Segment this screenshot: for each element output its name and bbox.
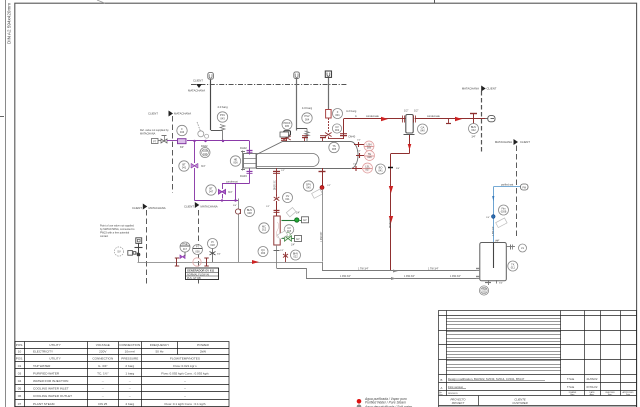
svg-text:MATACHANA: MATACHANA bbox=[174, 112, 191, 116]
steam outlet DA06 bbox=[340, 134, 356, 139]
svg-text:048: 048 bbox=[247, 211, 252, 215]
gauge PSE-017 bbox=[180, 242, 190, 252]
svg-text:CLIENT: CLIENT bbox=[193, 79, 203, 83]
svg-text:Appr.: Appr. bbox=[590, 393, 595, 396]
svg-text:CONNECTION: CONNECTION bbox=[92, 357, 113, 361]
gate valve 2 bbox=[204, 258, 208, 267]
boundary client feedwater bbox=[148, 111, 191, 194]
boundary client steam bbox=[462, 86, 497, 154]
svg-text:10m+el: 10m+el bbox=[125, 350, 136, 354]
svg-text:012: 012 bbox=[262, 228, 267, 232]
svg-text:3/4": 3/4" bbox=[396, 168, 400, 170]
level switch LSL-007 bbox=[352, 163, 373, 173]
tank outlet TSW-032 bbox=[479, 240, 503, 295]
svg-text:SV: SV bbox=[117, 250, 121, 254]
svg-text:1/2": 1/2" bbox=[357, 140, 361, 142]
svg-text:3/4": 3/4" bbox=[499, 283, 503, 285]
regulator PRCK-005 bbox=[282, 120, 292, 142]
storage tank TK bbox=[480, 243, 507, 281]
svg-text:T.Sda: T.Sda bbox=[567, 377, 575, 381]
svg-text:1 DW 3/4": 1 DW 3/4" bbox=[404, 275, 415, 278]
svg-text:FREQUENCY: FREQUENCY bbox=[150, 343, 169, 347]
purified water drop bbox=[486, 187, 509, 243]
svg-text:EV: EV bbox=[296, 238, 300, 241]
svg-text:CLIENT: CLIENT bbox=[520, 140, 530, 144]
svg-text:PURIFIED WATER: PURIFIED WATER bbox=[33, 371, 60, 375]
svg-text:--: -- bbox=[129, 387, 131, 391]
svg-text:ELECTRICITY: ELECTRICITY bbox=[33, 350, 53, 354]
svg-text:B: B bbox=[441, 378, 443, 382]
svg-text:03: 03 bbox=[18, 371, 22, 375]
boundary client drain bbox=[184, 202, 218, 285]
svg-text:DN40: DN40 bbox=[349, 135, 356, 139]
temp element TE-008 bbox=[356, 151, 375, 161]
svg-text:1/2": 1/2" bbox=[404, 110, 408, 113]
revision B bbox=[441, 377, 598, 382]
svg-text:Flow: 0.1 kg/h Cons : 0.1 kg/: Flow: 0.1 kg/h Cons : 0.1 kg/h bbox=[165, 402, 206, 406]
svg-text:MATACHANA: MATACHANA bbox=[201, 205, 218, 209]
svg-text:--: -- bbox=[184, 379, 186, 383]
svg-text:CV: CV bbox=[286, 194, 290, 198]
svg-text:Sign.: Sign. bbox=[570, 394, 575, 396]
svg-text:1 PW 1/4": 1 PW 1/4" bbox=[493, 226, 495, 236]
tapwater POU valve bbox=[135, 238, 143, 262]
vent stack 1 bbox=[208, 73, 214, 130]
svg-text:TAP WATER: TAP WATER bbox=[33, 364, 51, 368]
pure steam drain bbox=[388, 154, 400, 272]
svg-text:022: 022 bbox=[293, 255, 298, 259]
svg-text:PROYECTO: PROYECTO bbox=[450, 397, 466, 401]
point of use PW bbox=[152, 136, 168, 144]
svg-text:--: -- bbox=[184, 394, 186, 398]
tank level LS bbox=[506, 244, 526, 252]
svg-text:COOLING WATER OUTLET: COOLING WATER OUTLET bbox=[33, 394, 72, 398]
control valve CV-015 bbox=[277, 225, 301, 247]
svg-text:1/2": 1/2" bbox=[281, 170, 285, 172]
svg-text:condensate: condensate bbox=[366, 115, 380, 118]
svg-text:2 barg: 2 barg bbox=[125, 364, 134, 368]
svg-text:BHV: BHV bbox=[293, 251, 299, 255]
svg-text:1/2": 1/2" bbox=[357, 151, 361, 153]
svg-text:07/01/22: 07/01/22 bbox=[587, 385, 598, 389]
svg-text:PT: PT bbox=[153, 140, 157, 143]
revision header row bbox=[439, 391, 634, 396]
G-RIGHT bbox=[388, 135, 411, 271]
legend purified water bbox=[357, 399, 362, 404]
svg-text:2kW: 2kW bbox=[200, 350, 206, 354]
blowdown line DA07 bbox=[273, 168, 285, 196]
svg-text:DA02: DA02 bbox=[240, 146, 247, 150]
valve BT-047 bbox=[206, 184, 233, 199]
svg-text:4.0 barg: 4.0 barg bbox=[302, 106, 313, 110]
svg-text:--: -- bbox=[129, 394, 131, 398]
revision A bbox=[441, 385, 598, 390]
svg-text:1/2": 1/2" bbox=[414, 110, 418, 113]
svg-text:TS: TS bbox=[332, 144, 336, 148]
svg-text:MATACHANA: MATACHANA bbox=[462, 87, 479, 91]
tap water to tank bbox=[322, 262, 480, 273]
G-PURPLE bbox=[140, 111, 253, 202]
top valve DA05 bbox=[302, 136, 308, 142]
hand valve BHV-042 bbox=[469, 114, 479, 139]
svg-text:1 barg: 1 barg bbox=[125, 371, 134, 375]
svg-text:1 TW 3/4": 1 TW 3/4" bbox=[358, 268, 369, 271]
svg-text:GENERADOR GV 611: GENERADOR GV 611 bbox=[187, 268, 215, 272]
svg-text:045: 045 bbox=[306, 186, 311, 190]
revision rows thin lines bbox=[446, 319, 561, 371]
sheet edge bbox=[5, 0, 7, 407]
svg-text:008: 008 bbox=[367, 156, 372, 159]
svg-text:QC: QC bbox=[261, 248, 265, 252]
svg-text:--: -- bbox=[102, 394, 104, 398]
svg-text:SPV: SPV bbox=[306, 182, 311, 186]
tank bubble TK-011 bbox=[508, 261, 518, 271]
gauge PI-018 bbox=[208, 239, 218, 249]
svg-text:PI: PI bbox=[211, 240, 214, 244]
svg-text:4.0 barg: 4.0 barg bbox=[217, 105, 228, 109]
svg-text:3/4": 3/4" bbox=[201, 165, 205, 168]
svg-text:BHV: BHV bbox=[247, 208, 253, 212]
svg-text:005: 005 bbox=[285, 125, 290, 128]
svg-text:1/4": 1/4" bbox=[296, 213, 300, 215]
G-BOTTOMLEFT bbox=[100, 202, 322, 285]
svg-text:PSV: PSV bbox=[220, 113, 225, 117]
svg-text:PRESSURE: PRESSURE bbox=[121, 357, 138, 361]
svg-text:1/4": 1/4" bbox=[486, 217, 490, 219]
svg-text:PROJECT: PROJECT bbox=[452, 401, 465, 405]
svg-text:PT: PT bbox=[196, 246, 200, 249]
svg-text:4.2 barg: 4.2 barg bbox=[346, 109, 357, 113]
svg-text:CV: CV bbox=[287, 226, 291, 230]
level bubble TS-005 bbox=[329, 142, 339, 152]
fold mark diagonal bbox=[97, 0, 105, 3]
steam generator vessel bbox=[241, 142, 358, 171]
filter F-001 bbox=[326, 109, 357, 119]
blowdown valve BHV-048 bbox=[233, 199, 255, 263]
svg-text:POS.: POS. bbox=[16, 343, 24, 347]
svg-text:1/4": 1/4" bbox=[291, 245, 295, 247]
rupture disc monitor bbox=[197, 122, 209, 138]
svg-text:T.Sda: T.Sda bbox=[567, 385, 575, 389]
svg-text:1/2": 1/2" bbox=[327, 185, 331, 187]
svg-text:GA: GA bbox=[421, 125, 425, 129]
hose connection bbox=[128, 251, 139, 256]
control valve CV-011 bbox=[266, 193, 293, 217]
boundary dash-dot line top bbox=[188, 79, 348, 93]
svg-text:TC, 1½": TC, 1½" bbox=[97, 371, 108, 375]
svg-text:MC: MC bbox=[262, 224, 266, 228]
svg-text:REVISION: REVISION bbox=[448, 393, 458, 395]
svg-text:005: 005 bbox=[332, 147, 337, 151]
svg-text:002: 002 bbox=[335, 128, 340, 132]
svg-text:WATER FOR INJECTION: WATER FOR INJECTION bbox=[33, 379, 68, 383]
solenoid SV-016 bbox=[282, 208, 309, 223]
svg-text:3/4": 3/4" bbox=[228, 191, 232, 194]
svg-text:21/06/22: 21/06/22 bbox=[587, 377, 598, 381]
svg-text:EV: EV bbox=[303, 219, 307, 222]
valve BT-041 bbox=[179, 141, 206, 201]
svg-text:A: A bbox=[441, 386, 443, 390]
svg-text:BHV: BHV bbox=[471, 125, 477, 129]
svg-text:DN25 PS: DN25 PS bbox=[390, 218, 392, 228]
G-LEGEND bbox=[357, 397, 413, 407]
svg-text:043: 043 bbox=[180, 130, 185, 134]
svg-text:05: 05 bbox=[18, 387, 22, 391]
svg-text:04: 04 bbox=[18, 379, 22, 383]
solenoid SV tag bbox=[114, 247, 123, 256]
svg-text:CLIENTE: CLIENTE bbox=[514, 397, 526, 401]
relief valve PSV-004 bbox=[297, 106, 313, 141]
svg-text:1 PW 3/4": 1 PW 3/4" bbox=[321, 232, 323, 242]
sample cooler GA-040 bbox=[404, 110, 428, 135]
svg-text:CONNECTION: CONNECTION bbox=[119, 343, 140, 347]
svg-text:1 DW 3/4": 1 DW 3/4" bbox=[340, 275, 351, 278]
svg-text:006: 006 bbox=[233, 161, 238, 165]
svg-text:condensate: condensate bbox=[427, 115, 441, 118]
svg-text:Flow: 0.092 kg/s Cons.: 0.092: Flow: 0.092 kg/s Cons.: 0.092 kg/s bbox=[161, 371, 209, 375]
title block bbox=[439, 311, 637, 407]
note point of use bbox=[100, 225, 135, 239]
svg-text:3/4": 3/4" bbox=[233, 205, 237, 207]
svg-text:BT: BT bbox=[182, 162, 186, 166]
svg-text:POS.: POS. bbox=[16, 357, 24, 361]
G-TABLES bbox=[15, 311, 637, 407]
boundary client tapwater bbox=[132, 204, 166, 286]
utility table bbox=[15, 342, 229, 407]
tap water line bbox=[138, 260, 323, 264]
svg-text:TK: TK bbox=[511, 262, 515, 266]
svg-text:1/2": 1/2" bbox=[353, 164, 357, 166]
sample cooler drain bbox=[258, 245, 280, 268]
svg-text:Flow: 0.021 kg/ s: Flow: 0.021 kg/ s bbox=[173, 364, 197, 368]
svg-text:041: 041 bbox=[182, 166, 187, 170]
svg-text:001: 001 bbox=[335, 113, 340, 117]
G-TANK bbox=[476, 139, 530, 295]
svg-text:009: 009 bbox=[367, 147, 372, 150]
svg-text:07: 07 bbox=[18, 402, 22, 406]
svg-text:MATACHANA: MATACHANA bbox=[188, 89, 205, 93]
svg-text:VOLTAGE: VOLTAGE bbox=[96, 343, 110, 347]
svg-text:038: 038 bbox=[195, 250, 200, 253]
svg-text:contact: contact bbox=[100, 235, 108, 238]
svg-text:POWER: POWER bbox=[197, 343, 209, 347]
svg-text:01: 01 bbox=[18, 364, 22, 368]
G-VESSEL bbox=[230, 132, 385, 178]
equipment tag box bbox=[186, 268, 219, 280]
svg-text:011: 011 bbox=[285, 197, 290, 201]
svg-text:040: 040 bbox=[420, 129, 425, 133]
svg-text:DN25 SC: DN25 SC bbox=[275, 180, 277, 190]
svg-text:BT: BT bbox=[209, 186, 213, 190]
svg-text:1 TW 3/4": 1 TW 3/4" bbox=[428, 268, 439, 271]
svg-text:COOLING WATER INLET: COOLING WATER INLET bbox=[33, 387, 69, 391]
svg-text:011: 011 bbox=[511, 266, 516, 270]
control valve CV-002 bbox=[325, 118, 344, 139]
svg-text:007: 007 bbox=[365, 169, 370, 172]
capped steam outlet bbox=[485, 116, 495, 122]
svg-text:MATACHANA: MATACHANA bbox=[140, 132, 156, 135]
svg-text:CUSTOMER: CUSTOMER bbox=[512, 401, 527, 405]
gate valve 1 bbox=[175, 258, 179, 267]
svg-text:220V: 220V bbox=[99, 350, 107, 354]
svg-text:--: -- bbox=[102, 387, 104, 391]
filter F-043 bbox=[167, 125, 187, 149]
svg-text:CLIENT: CLIENT bbox=[148, 112, 158, 116]
svg-text:042: 042 bbox=[471, 128, 476, 132]
svg-text:PLS, GT DB: PLS, GT DB bbox=[187, 277, 201, 280]
svg-text:DA03: DA03 bbox=[240, 174, 247, 178]
svg-text:3/4": 3/4" bbox=[180, 146, 184, 149]
svg-text:3/4": 3/4" bbox=[471, 136, 475, 139]
svg-text:017: 017 bbox=[183, 248, 188, 251]
svg-text:3/4": 3/4" bbox=[217, 254, 221, 256]
heater bubble HE-006 bbox=[230, 156, 240, 166]
svg-text:50 Hz: 50 Hz bbox=[155, 350, 164, 354]
svg-text:PLANT STEAM: PLANT STEAM bbox=[33, 402, 55, 406]
purified water inlet bbox=[493, 184, 528, 191]
drain header purple bbox=[195, 184, 239, 202]
svg-text:018: 018 bbox=[210, 243, 215, 247]
svg-text:047: 047 bbox=[209, 190, 214, 194]
gauge PT-038 bbox=[193, 245, 203, 255]
G-MIDDLE bbox=[233, 168, 331, 268]
relief valve PSV-043 bbox=[211, 80, 229, 141]
svg-text:Sign.: Sign. bbox=[608, 394, 613, 396]
svg-text:LS: LS bbox=[521, 247, 524, 250]
svg-text:FLOW/TEMP/NOTES: FLOW/TEMP/NOTES bbox=[170, 357, 200, 361]
fold mark tick bbox=[434, 0, 436, 3]
svg-text:1/4": 1/4" bbox=[496, 240, 500, 242]
svg-text:06: 06 bbox=[18, 394, 22, 398]
svg-text:1 DW 3/4": 1 DW 3/4" bbox=[450, 275, 461, 278]
svg-text:10: 10 bbox=[18, 350, 22, 354]
tank inlet nozzles bbox=[476, 269, 480, 279]
svg-text:CLIENT: CLIENT bbox=[487, 87, 497, 91]
margin tick bbox=[0, 116, 4, 118]
svg-text:4 barg: 4 barg bbox=[125, 402, 134, 406]
G-BOTTOMPIPES bbox=[277, 262, 480, 280]
project band bbox=[439, 396, 637, 406]
svg-text:CLIENT: CLIENT bbox=[184, 205, 194, 209]
drain to tank bbox=[277, 268, 480, 280]
feed drop to DA02 bbox=[247, 141, 253, 155]
spare valve SPV-045 bbox=[303, 168, 331, 262]
svg-text:TSW: TSW bbox=[481, 289, 487, 291]
pure steam line to client bbox=[344, 115, 406, 139]
steam line continue bbox=[415, 115, 487, 124]
condensate return DA03 bbox=[222, 169, 253, 184]
boundary client purified water bbox=[495, 139, 530, 239]
svg-text:MATACHANA: MATACHANA bbox=[495, 140, 512, 144]
sample valve BHV-022 bbox=[280, 250, 301, 262]
purple drain tie bbox=[180, 255, 185, 259]
svg-text:1/2": 1/2" bbox=[266, 206, 270, 208]
vent stack 2 bbox=[294, 72, 300, 131]
G-DIAGRAM bbox=[188, 71, 497, 153]
svg-text:030B: 030B bbox=[501, 211, 507, 214]
conductivity CON-043 bbox=[200, 148, 210, 158]
svg-text:HE: HE bbox=[234, 157, 238, 161]
svg-text:G. 3/4": G. 3/4" bbox=[98, 364, 108, 368]
feedwater line bbox=[187, 140, 250, 142]
top flange DA04 bbox=[320, 136, 326, 142]
svg-text:004: 004 bbox=[305, 118, 310, 122]
svg-text:CLIENT: CLIENT bbox=[132, 206, 142, 210]
svg-text:purified wat: purified wat bbox=[501, 184, 514, 187]
cooler drain line bbox=[391, 135, 411, 154]
svg-text:--: -- bbox=[184, 387, 186, 391]
svg-text:condensat: condensat bbox=[226, 180, 238, 183]
top nozzle DA09 bbox=[280, 132, 289, 141]
svg-text:DN 25: DN 25 bbox=[98, 402, 107, 406]
svg-text:DIN A2 594x420mm: DIN A2 594x420mm bbox=[7, 3, 12, 44]
svg-text:033: 033 bbox=[261, 251, 266, 255]
svg-text:CV: CV bbox=[335, 125, 339, 129]
svg-text:043: 043 bbox=[220, 117, 225, 121]
svg-text:PSV: PSV bbox=[304, 114, 309, 118]
svg-text:UTILITY: UTILITY bbox=[49, 343, 61, 347]
svg-text:MATACHANA: MATACHANA bbox=[149, 206, 166, 210]
level switch LSH-009 bbox=[354, 140, 374, 152]
svg-text:1/2": 1/2" bbox=[280, 250, 284, 252]
svg-text:043: 043 bbox=[203, 153, 208, 156]
svg-text:UTILITY: UTILITY bbox=[49, 357, 61, 361]
svg-text:PSE: PSE bbox=[182, 243, 187, 246]
svg-text:BO: BO bbox=[379, 165, 383, 169]
cooler MC-012 bbox=[259, 216, 280, 245]
svg-text:--: -- bbox=[129, 379, 131, 383]
svg-text:041: 041 bbox=[378, 169, 383, 173]
svg-text:Rev.: Rev. bbox=[439, 394, 443, 396]
vent stack 3 bbox=[325, 71, 331, 110]
svg-text:--: -- bbox=[102, 379, 104, 383]
pump circle bbox=[193, 258, 201, 266]
utility table text bbox=[16, 343, 210, 407]
